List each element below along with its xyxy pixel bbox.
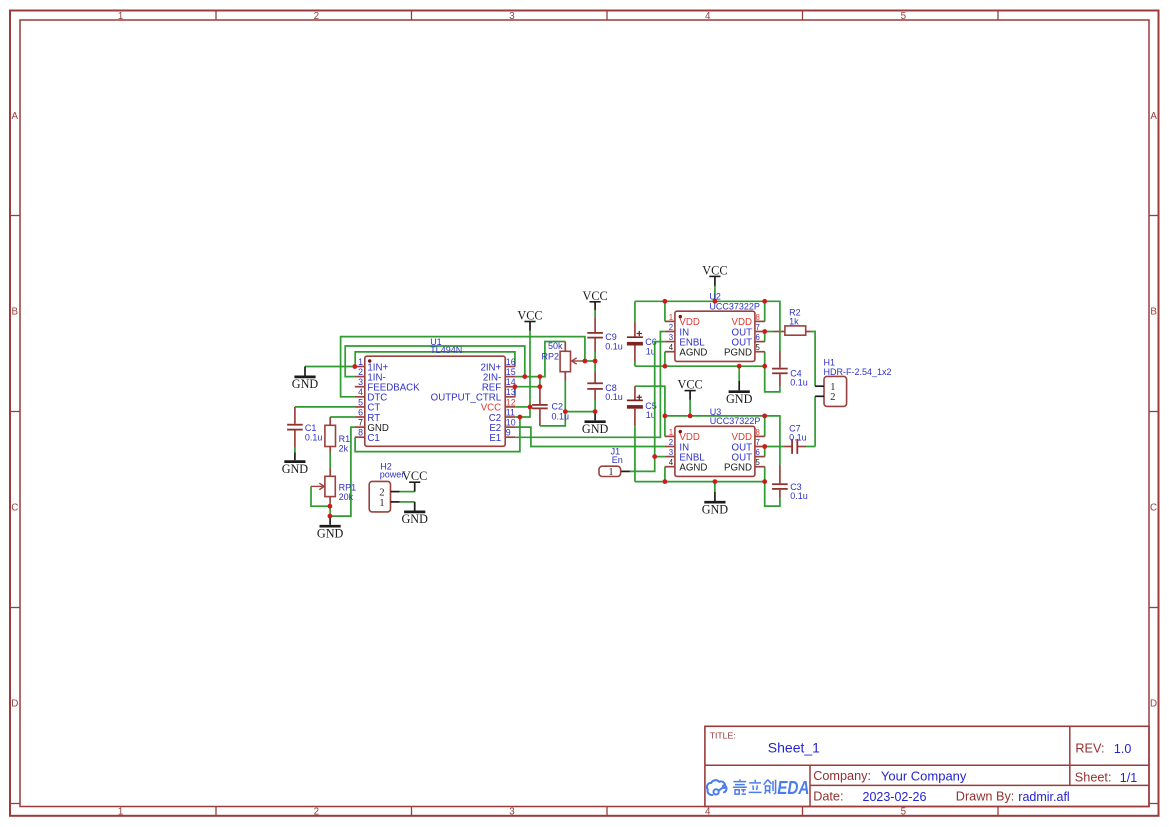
svg-text:En: En bbox=[612, 455, 623, 465]
svg-text:GND: GND bbox=[401, 512, 428, 526]
svg-text:10: 10 bbox=[506, 418, 516, 428]
svg-text:Drawn By:: Drawn By: bbox=[956, 790, 1015, 804]
svg-text:5: 5 bbox=[358, 397, 363, 407]
svg-text:3: 3 bbox=[358, 377, 363, 387]
svg-text:4: 4 bbox=[358, 387, 363, 397]
svg-text:8: 8 bbox=[756, 428, 760, 437]
svg-text:0.1u: 0.1u bbox=[605, 392, 623, 402]
svg-text:5: 5 bbox=[901, 11, 907, 22]
svg-text:1.0: 1.0 bbox=[1114, 742, 1131, 756]
svg-text:VCC: VCC bbox=[582, 289, 607, 303]
svg-text:UCC37322P: UCC37322P bbox=[710, 416, 761, 426]
svg-text:TL494N: TL494N bbox=[430, 345, 462, 355]
svg-text:1: 1 bbox=[118, 806, 123, 817]
svg-text:power: power bbox=[380, 469, 405, 479]
svg-text:VCC: VCC bbox=[677, 378, 702, 392]
svg-text:GND: GND bbox=[317, 526, 344, 540]
svg-text:D: D bbox=[1150, 699, 1157, 710]
svg-text:GND: GND bbox=[702, 502, 729, 516]
svg-text:50k: 50k bbox=[548, 341, 563, 351]
svg-text:Sheet_1: Sheet_1 bbox=[768, 739, 820, 755]
svg-text:E1: E1 bbox=[489, 433, 501, 444]
svg-text:GND: GND bbox=[582, 422, 609, 436]
svg-text:RP2: RP2 bbox=[542, 351, 560, 361]
svg-text:1: 1 bbox=[669, 313, 673, 322]
svg-text:EDA: EDA bbox=[777, 777, 809, 798]
svg-text:3: 3 bbox=[669, 448, 673, 457]
svg-text:8: 8 bbox=[756, 313, 760, 322]
svg-text:2023-02-26: 2023-02-26 bbox=[863, 790, 927, 804]
svg-text:Company:: Company: bbox=[813, 769, 871, 783]
svg-text:3: 3 bbox=[509, 11, 515, 22]
svg-text:1: 1 bbox=[669, 428, 673, 437]
svg-text:REV:: REV: bbox=[1075, 742, 1104, 756]
svg-text:4: 4 bbox=[705, 806, 711, 817]
svg-text:A: A bbox=[12, 111, 19, 122]
svg-text:C: C bbox=[11, 503, 18, 514]
svg-text:4: 4 bbox=[669, 458, 674, 467]
svg-text:PGND: PGND bbox=[724, 463, 752, 474]
svg-text:16: 16 bbox=[506, 357, 516, 367]
svg-text:20k: 20k bbox=[339, 492, 354, 502]
svg-text:2: 2 bbox=[669, 323, 673, 332]
svg-text:11: 11 bbox=[506, 407, 515, 417]
svg-text:5: 5 bbox=[756, 458, 761, 467]
svg-text:7: 7 bbox=[756, 323, 760, 332]
svg-text:5: 5 bbox=[756, 343, 761, 352]
svg-text:radmir.afl: radmir.afl bbox=[1018, 790, 1069, 804]
svg-text:B: B bbox=[1150, 307, 1157, 318]
svg-text:1: 1 bbox=[608, 467, 613, 478]
svg-text:D: D bbox=[11, 699, 18, 710]
svg-text:4: 4 bbox=[669, 343, 674, 352]
svg-text:2: 2 bbox=[669, 438, 673, 447]
svg-text:2: 2 bbox=[358, 367, 363, 377]
svg-text:3: 3 bbox=[669, 333, 673, 342]
svg-text:Your Company: Your Company bbox=[881, 768, 967, 783]
svg-text:GND: GND bbox=[292, 377, 319, 391]
svg-text:A: A bbox=[1150, 111, 1157, 122]
svg-text:HDR-F-2.54_1x2: HDR-F-2.54_1x2 bbox=[824, 367, 892, 377]
svg-text:1: 1 bbox=[379, 498, 384, 509]
svg-text:6: 6 bbox=[756, 448, 760, 457]
svg-text:C1: C1 bbox=[367, 433, 379, 444]
svg-text:7: 7 bbox=[358, 418, 363, 428]
svg-text:2: 2 bbox=[379, 487, 384, 498]
svg-text:1: 1 bbox=[118, 11, 123, 22]
svg-text:Date:: Date: bbox=[813, 789, 843, 803]
svg-text:9: 9 bbox=[506, 428, 511, 438]
svg-text:3: 3 bbox=[509, 806, 515, 817]
svg-text:2: 2 bbox=[830, 392, 835, 403]
svg-text:6: 6 bbox=[756, 333, 760, 342]
svg-text:H1: H1 bbox=[824, 357, 836, 367]
svg-text:12: 12 bbox=[506, 397, 516, 407]
svg-text:0.1u: 0.1u bbox=[605, 341, 623, 351]
svg-text:1/1: 1/1 bbox=[1120, 771, 1137, 785]
svg-text:PGND: PGND bbox=[724, 348, 752, 359]
svg-text:6: 6 bbox=[358, 407, 363, 417]
svg-text:VCC: VCC bbox=[402, 469, 427, 483]
svg-text:15: 15 bbox=[506, 367, 516, 377]
svg-text:UCC37322P: UCC37322P bbox=[709, 301, 760, 311]
svg-text:TITLE:: TITLE: bbox=[710, 731, 736, 741]
svg-text:C2: C2 bbox=[552, 402, 564, 412]
svg-text:0.1u: 0.1u bbox=[789, 433, 807, 443]
svg-text:0.1u: 0.1u bbox=[305, 432, 323, 442]
svg-text:GND: GND bbox=[726, 392, 753, 406]
svg-text:AGND: AGND bbox=[679, 463, 707, 474]
svg-text:8: 8 bbox=[358, 428, 363, 438]
svg-text:Sheet:: Sheet: bbox=[1075, 771, 1112, 785]
svg-text:1k: 1k bbox=[789, 317, 799, 327]
svg-text:GND: GND bbox=[282, 462, 309, 476]
svg-text:7: 7 bbox=[756, 438, 760, 447]
svg-text:AGND: AGND bbox=[679, 348, 707, 359]
svg-text:VCC: VCC bbox=[517, 309, 542, 323]
svg-text:2: 2 bbox=[314, 806, 319, 817]
svg-text:1: 1 bbox=[358, 357, 363, 367]
svg-text:0.1u: 0.1u bbox=[790, 491, 808, 501]
svg-text:4: 4 bbox=[705, 11, 711, 22]
svg-text:5: 5 bbox=[901, 806, 907, 817]
svg-text:C: C bbox=[1150, 503, 1157, 514]
svg-text:2k: 2k bbox=[339, 443, 349, 453]
svg-text:VCC: VCC bbox=[702, 263, 727, 277]
svg-text:2: 2 bbox=[314, 11, 319, 22]
svg-text:0.1u: 0.1u bbox=[790, 378, 808, 388]
svg-text:B: B bbox=[12, 307, 19, 318]
